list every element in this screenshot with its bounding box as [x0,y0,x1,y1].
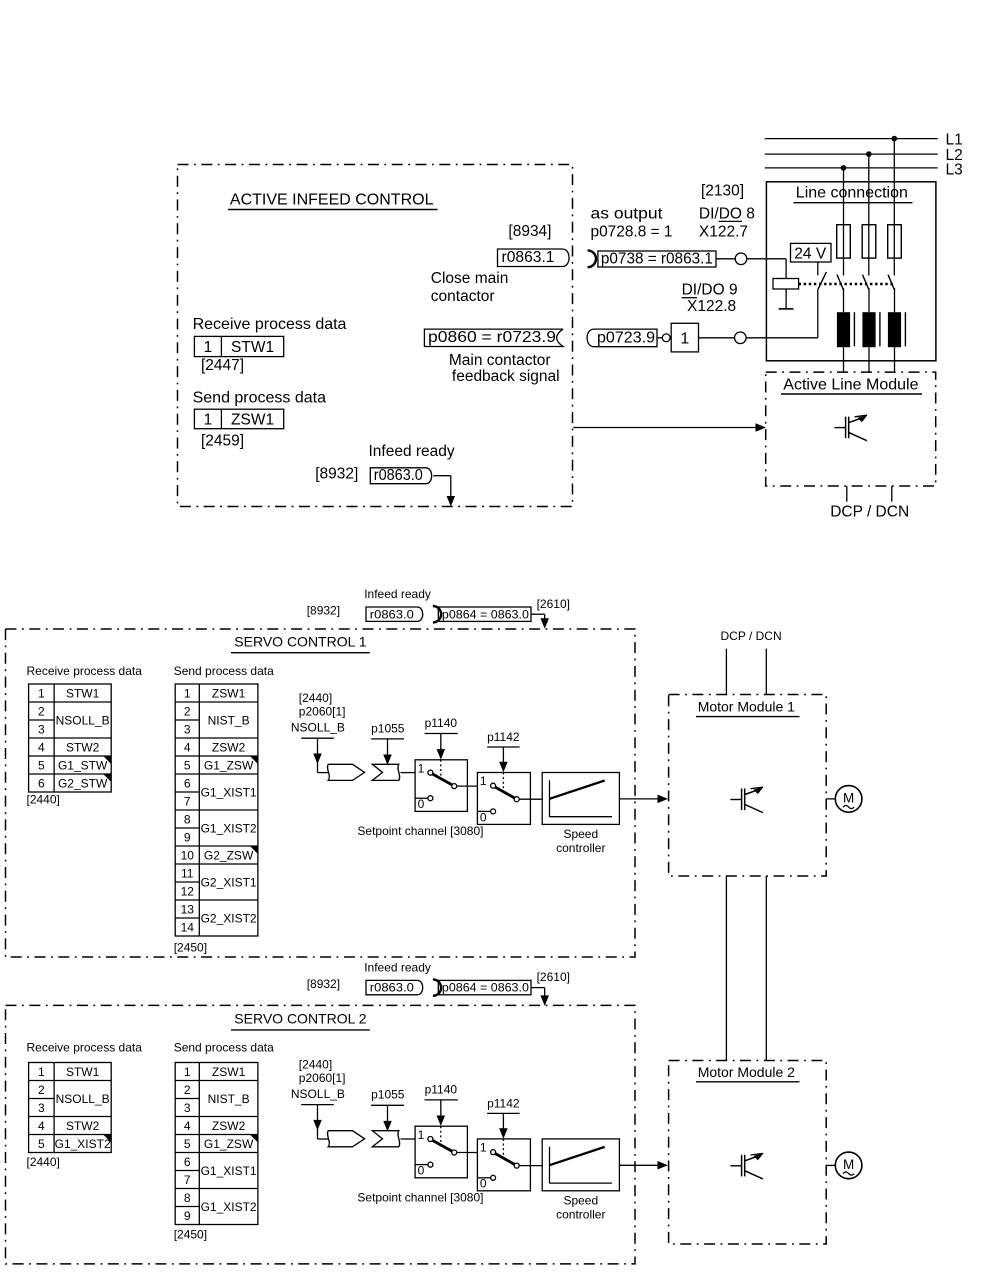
svg-text:11: 11 [181,866,194,880]
svg-text:Infeed ready: Infeed ready [369,443,455,460]
svg-text:8: 8 [184,812,191,826]
svg-text:G1_ZSW: G1_ZSW [204,1137,254,1151]
svg-text:G2_STW: G2_STW [58,776,108,790]
svg-text:0: 0 [480,1177,487,1191]
SC1 send process data table [175,684,258,936]
contactor contact K1.1 [837,275,844,290]
svg-text:[2610]: [2610] [537,970,570,984]
svg-text:G2_XIST1: G2_XIST1 [201,875,257,889]
wire phase S drop [868,154,870,275]
svg-text:1: 1 [38,686,45,700]
svg-text:NSOLL_B: NSOLL_B [56,713,110,727]
wire phase R drop [893,139,895,276]
svg-text:p0864 = 0863.0: p0864 = 0863.0 [442,607,529,621]
svg-text:24 V: 24 V [794,245,827,262]
inverter bubble [662,334,670,342]
svg-text:Infeed ready: Infeed ready [364,587,431,601]
svg-text:5: 5 [38,758,45,772]
motor M2 [835,1152,862,1179]
Line connection box [766,182,936,361]
table row 1 STW1 [194,336,283,356]
wire 1-box to terminal [699,337,735,339]
svg-text:p2060[1]: p2060[1] [299,1071,346,1085]
svg-text:Main contactor: Main contactor [449,352,551,369]
SERVO CONTROL 2 box [6,1005,636,1264]
wire switch2 to speed controller [519,1165,542,1167]
svg-text:4: 4 [38,1119,45,1133]
terminal DI/DO 9 [735,332,747,344]
svg-text:DI/DO 9: DI/DO 9 [682,282,738,299]
svg-text:DI/DO 8: DI/DO 8 [699,205,755,222]
svg-text:2: 2 [184,704,191,718]
svg-text:X122.7: X122.7 [699,223,748,240]
svg-text:Close main: Close main [431,270,509,287]
svg-text:5: 5 [184,758,191,772]
wire relay to ground [785,289,787,309]
wire DC bus right [765,876,767,1061]
wire DCP lead MM1 [725,649,727,695]
wire L1 [765,138,938,140]
switch p1140 box [415,760,467,812]
svg-text:0: 0 [418,1163,425,1177]
svg-text:Motor Module 1: Motor Module 1 [698,699,795,715]
svg-text:r0863.0: r0863.0 [374,467,423,484]
wire phase 1 to ALM [843,347,845,372]
svg-text:1: 1 [480,774,487,788]
svg-text:p0738 = r0863.1: p0738 = r0863.1 [601,251,713,268]
svg-text:G2_ZSW: G2_ZSW [204,848,254,862]
24 V supply box [791,243,832,262]
connector r0863.1 [498,249,570,267]
svg-text:3: 3 [184,722,191,736]
svg-text:1: 1 [204,412,213,429]
svg-text:[2610]: [2610] [537,597,570,611]
svg-text:4: 4 [184,740,191,754]
svg-text:8: 8 [184,1191,191,1205]
svg-text:NSOLL_B: NSOLL_B [291,721,345,735]
data chevron symbol [372,1131,399,1147]
svg-text:ZSW1: ZSW1 [212,1065,246,1079]
svg-text:controller: controller [556,841,605,855]
wire p1140 arrow [440,1100,442,1118]
svg-text:STW1: STW1 [66,686,100,700]
wire DCP lead ALM [846,486,848,502]
SC2 receive process data table [29,1063,112,1153]
connector p0864 = 0863.0 [433,979,441,995]
node L2 tap [866,151,872,157]
svg-text:Send process data: Send process data [193,389,327,406]
svg-text:1: 1 [480,1141,487,1155]
switch p1140 box [415,1126,467,1178]
svg-text:[2440]: [2440] [27,792,60,806]
svg-text:DCP / DCN: DCP / DCN [830,503,909,520]
svg-text:STW1: STW1 [66,1065,100,1079]
svg-text:2: 2 [184,1083,191,1097]
Active Line Module box [766,372,936,486]
svg-text:Setpoint channel [3080]: Setpoint channel [3080] [357,824,483,838]
svg-text:Infeed ready: Infeed ready [364,960,431,974]
contactor mechanical link [799,283,893,285]
wire p1055 arrow [387,739,389,757]
wire speed controller output [619,798,659,800]
svg-text:ACTIVE INFEED CONTROL: ACTIVE INFEED CONTROL [230,192,434,209]
svg-text:Line connection: Line connection [796,185,908,202]
wire MM2 to motor [826,1164,835,1166]
wire p1055 arrow [387,1105,389,1123]
svg-text:G1_XIST1: G1_XIST1 [201,785,257,799]
svg-text:2: 2 [38,1083,45,1097]
connector p0864 = 0863.0 [433,606,441,622]
svg-text:[2440]: [2440] [299,1058,332,1072]
svg-text:10: 10 [181,848,195,862]
svg-text:[2447]: [2447] [201,357,244,374]
wire infeed to Active Line Module [573,427,757,429]
svg-text:[2440]: [2440] [27,1155,60,1169]
data word symbol [327,764,364,780]
svg-text:1: 1 [418,761,425,775]
wire switch1 to switch2 [457,785,478,787]
svg-text:6: 6 [184,1155,191,1169]
svg-text:12: 12 [181,884,195,898]
ground bar [779,308,794,310]
svg-text:0: 0 [418,797,425,811]
svg-text:STW2: STW2 [66,740,100,754]
svg-text:Speed: Speed [563,1194,598,1208]
line reactor L1 [837,312,850,347]
wire phase T drop [843,168,845,276]
svg-text:p0860 = r0723.9: p0860 = r0723.9 [428,329,556,346]
svg-text:NSOLL_B: NSOLL_B [291,1087,345,1101]
wire p1142 arrow [502,747,504,764]
svg-text:6: 6 [184,776,191,790]
svg-text:G1_ZSW: G1_ZSW [204,758,254,772]
svg-text:[2440]: [2440] [299,691,332,705]
svg-text:p1142: p1142 [487,1096,520,1110]
svg-text:G1_XIST2: G1_XIST2 [55,1137,111,1151]
svg-text:1: 1 [204,339,213,356]
svg-text:NIST_B: NIST_B [208,1092,250,1106]
svg-text:[2130]: [2130] [701,182,744,199]
svg-text:0: 0 [480,810,487,824]
svg-text:M: M [843,791,854,806]
Motor Module 1 box [669,695,827,877]
data chevron symbol [372,764,399,780]
wire chevron to switch1 [401,772,416,774]
wire switch1 to switch2 [457,1152,478,1154]
wire p0864 to servo box [531,613,545,615]
svg-text:[8932]: [8932] [307,977,340,991]
fuse F3 [888,225,902,258]
svg-text:feedback signal: feedback signal [452,368,560,385]
wire L3 [765,167,938,169]
fuse F1 [837,225,851,258]
svg-text:as output: as output [591,205,664,222]
svg-text:G1_XIST2: G1_XIST2 [201,821,257,835]
svg-text:14: 14 [181,920,195,934]
connector r0863.0 [366,607,423,621]
svg-text:13: 13 [181,902,195,916]
svg-text:3: 3 [184,1101,191,1115]
svg-text:Speed: Speed [563,827,598,841]
wire p1142 arrow [502,1113,504,1130]
svg-text:[2459]: [2459] [201,432,244,449]
SERVO CONTROL 1 box [6,629,636,957]
svg-text:p1140: p1140 [425,716,458,730]
wire phase 2 to ALM [868,347,870,372]
svg-text:9: 9 [184,830,191,844]
svg-text:Active Line Module: Active Line Module [783,376,918,393]
svg-text:[2450]: [2450] [174,1227,207,1241]
fuse F2 [862,225,876,258]
svg-text:G1_XIST2: G1_XIST2 [201,1200,257,1214]
svg-text:X122.8: X122.8 [687,298,736,315]
svg-text:G1_XIST1: G1_XIST1 [201,1164,257,1178]
speed controller box [542,1139,619,1191]
contactor contact K1.3 [888,275,895,290]
wire DCN lead MM1 [765,649,767,695]
svg-text:STW1: STW1 [231,339,274,356]
svg-text:4: 4 [38,740,45,754]
svg-text:ZSW2: ZSW2 [212,740,246,754]
svg-text:NIST_B: NIST_B [208,713,250,727]
svg-text:[8934]: [8934] [508,223,551,240]
svg-text:[8932]: [8932] [307,604,340,618]
switch p1142 box [477,1139,530,1191]
wire DI/DO8 to relay [746,258,786,260]
connector r0863.0 infeed [370,468,431,484]
wire speed controller output [619,1164,659,1166]
svg-text:5: 5 [184,1137,191,1151]
svg-text:G2_XIST2: G2_XIST2 [201,911,257,925]
wire chevron to switch1 [401,1138,416,1140]
speed controller box [542,773,619,825]
svg-text:[2450]: [2450] [174,941,207,955]
IGBT Motor Module 2 [730,1153,763,1179]
svg-text:ZSW2: ZSW2 [212,1119,246,1133]
line reactor L3 [888,312,901,347]
wire p0864 to servo box [531,987,545,989]
svg-text:controller: controller [556,1208,605,1222]
switch p1142 box [477,773,530,825]
wire L2 [765,153,938,155]
wire DC bus left [725,876,727,1061]
node L3 tap [841,165,847,171]
svg-text:7: 7 [184,1173,191,1187]
terminal DI/DO 8 [735,253,747,265]
svg-text:Send process data: Send process data [174,1040,274,1054]
wire switch2 to speed controller [519,798,542,800]
table row 1 ZSW1 [194,409,283,429]
wire NSOLL_B down [317,1105,319,1139]
auxiliary switch [818,272,827,290]
svg-text:p0864 = 0863.0: p0864 = 0863.0 [442,981,529,995]
connector p0860 = r0723.9 [424,329,563,346]
svg-text:r0863.0: r0863.0 [370,607,414,621]
connector p0738 = r0863.1 [588,250,596,267]
svg-text:contactor: contactor [431,288,495,305]
ACTIVE INFEED CONTROL box [178,165,573,507]
svg-text:L1: L1 [946,131,963,148]
svg-text:p1055: p1055 [371,1088,405,1102]
SC2 send process data table [175,1063,258,1225]
svg-text:9: 9 [184,1209,191,1223]
svg-text:1: 1 [184,686,191,700]
svg-text:[8932]: [8932] [315,466,358,483]
node L1 tap [892,136,898,142]
svg-text:Motor Module 2: Motor Module 2 [698,1064,795,1080]
svg-text:Send process data: Send process data [174,664,274,678]
svg-text:ZSW1: ZSW1 [212,686,246,700]
IGBT Motor Module 1 [730,787,763,813]
wire NSOLL_B down [317,738,319,772]
svg-text:G1_STW: G1_STW [58,758,108,772]
svg-text:NSOLL_B: NSOLL_B [56,1092,110,1106]
svg-text:Setpoint channel [3080]: Setpoint channel [3080] [357,1191,483,1205]
svg-text:1: 1 [184,1065,191,1079]
wire p0723.9 to inverter [657,337,662,339]
svg-text:5: 5 [38,1137,45,1151]
wire phase 3 to ALM [894,347,896,372]
svg-text:Receive process data: Receive process data [27,664,143,678]
logic box 1 [671,323,698,352]
line reactor L2 [862,312,875,347]
svg-text:DCP / DCN: DCP / DCN [721,629,782,643]
wire r0863.0 to border [433,475,451,477]
svg-text:p1140: p1140 [425,1083,458,1097]
svg-text:L3: L3 [946,162,963,179]
svg-text:1: 1 [38,1065,45,1079]
svg-text:p0723.9: p0723.9 [597,329,655,346]
IGBT Active Line Module [834,415,867,441]
svg-text:6: 6 [38,776,45,790]
Motor Module 2 box [669,1061,827,1245]
wire DCN lead ALM [891,486,893,502]
wire 24V down [817,262,819,275]
svg-text:r0863.1: r0863.1 [502,249,555,266]
svg-text:p0728.8 = 1: p0728.8 = 1 [591,223,673,240]
contactor contact K1.2 [863,275,870,290]
svg-text:p2060[1]: p2060[1] [299,705,346,719]
motor M1 [835,786,862,813]
wire p1140 arrow [440,734,442,752]
svg-text:3: 3 [38,1101,45,1115]
svg-text:1: 1 [418,1128,425,1142]
SC1 receive process data table [29,684,112,792]
connector r0863.0 [366,980,423,994]
svg-text:STW2: STW2 [66,1119,100,1133]
svg-text:p1055: p1055 [371,721,405,735]
relay coil K1 [773,279,799,290]
svg-text:p1142: p1142 [487,730,520,744]
svg-text:M: M [843,1157,854,1172]
svg-text:2: 2 [38,704,45,718]
wire MM1 to motor [826,798,835,800]
svg-text:Receive process data: Receive process data [27,1040,143,1054]
svg-text:3: 3 [38,722,45,736]
data word symbol [327,1131,364,1147]
svg-text:Receive process data: Receive process data [193,316,347,333]
svg-text:4: 4 [184,1119,191,1133]
svg-text:7: 7 [184,794,191,808]
svg-text:SERVO CONTROL 2: SERVO CONTROL 2 [234,1011,366,1027]
wire DI/DO9 riser [817,290,819,338]
wire p0738 to terminal [716,258,735,260]
svg-text:r0863.0: r0863.0 [370,981,414,995]
svg-text:SERVO CONTROL 1: SERVO CONTROL 1 [234,633,366,649]
svg-text:1: 1 [680,331,689,348]
svg-text:ZSW1: ZSW1 [231,412,274,429]
connector p0723.9 [587,329,657,347]
